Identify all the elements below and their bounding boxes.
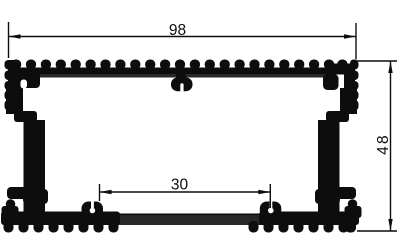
right wall: outer bumps bbox=[351, 60, 359, 111]
top plate (lid) bbox=[8, 68, 355, 75]
dim 48: extension lines bbox=[356, 60, 397, 62]
top cooling fins bbox=[11, 60, 357, 70]
top screw boss bbox=[171, 72, 193, 91]
right wall: upper body bbox=[323, 64, 357, 123]
bottom teeth right bbox=[249, 221, 357, 233]
dim 30: dimension line bbox=[100, 191, 271, 193]
svg-text:48: 48 bbox=[375, 133, 392, 155]
dim 98: dimension line bbox=[9, 36, 357, 38]
left wall: outer bumps bbox=[5, 60, 13, 111]
left wall: lower bar bbox=[6, 120, 48, 212]
bottom screw boss right bbox=[260, 202, 282, 218]
dim 30: extension lines bbox=[99, 184, 101, 201]
left wall: upper body bbox=[6, 60, 40, 122]
dim 98: extension lines bbox=[8, 22, 10, 58]
svg-text:98: 98 bbox=[169, 22, 186, 39]
bottom rail left bbox=[1, 212, 120, 226]
bottom-right corner filler bbox=[345, 206, 362, 218]
left shelf notch bbox=[21, 80, 28, 89]
dim 48: dimension line bbox=[390, 61, 392, 231]
bottom teeth left bbox=[4, 221, 119, 233]
bottom rail right bbox=[259, 212, 359, 226]
right wall: lower bar bbox=[315, 120, 357, 212]
bottom screw boss left bbox=[82, 202, 104, 218]
svg-text:30: 30 bbox=[171, 177, 189, 194]
bottom-left corner filler bbox=[2, 206, 19, 218]
bottom base plate bbox=[60, 214, 305, 219]
